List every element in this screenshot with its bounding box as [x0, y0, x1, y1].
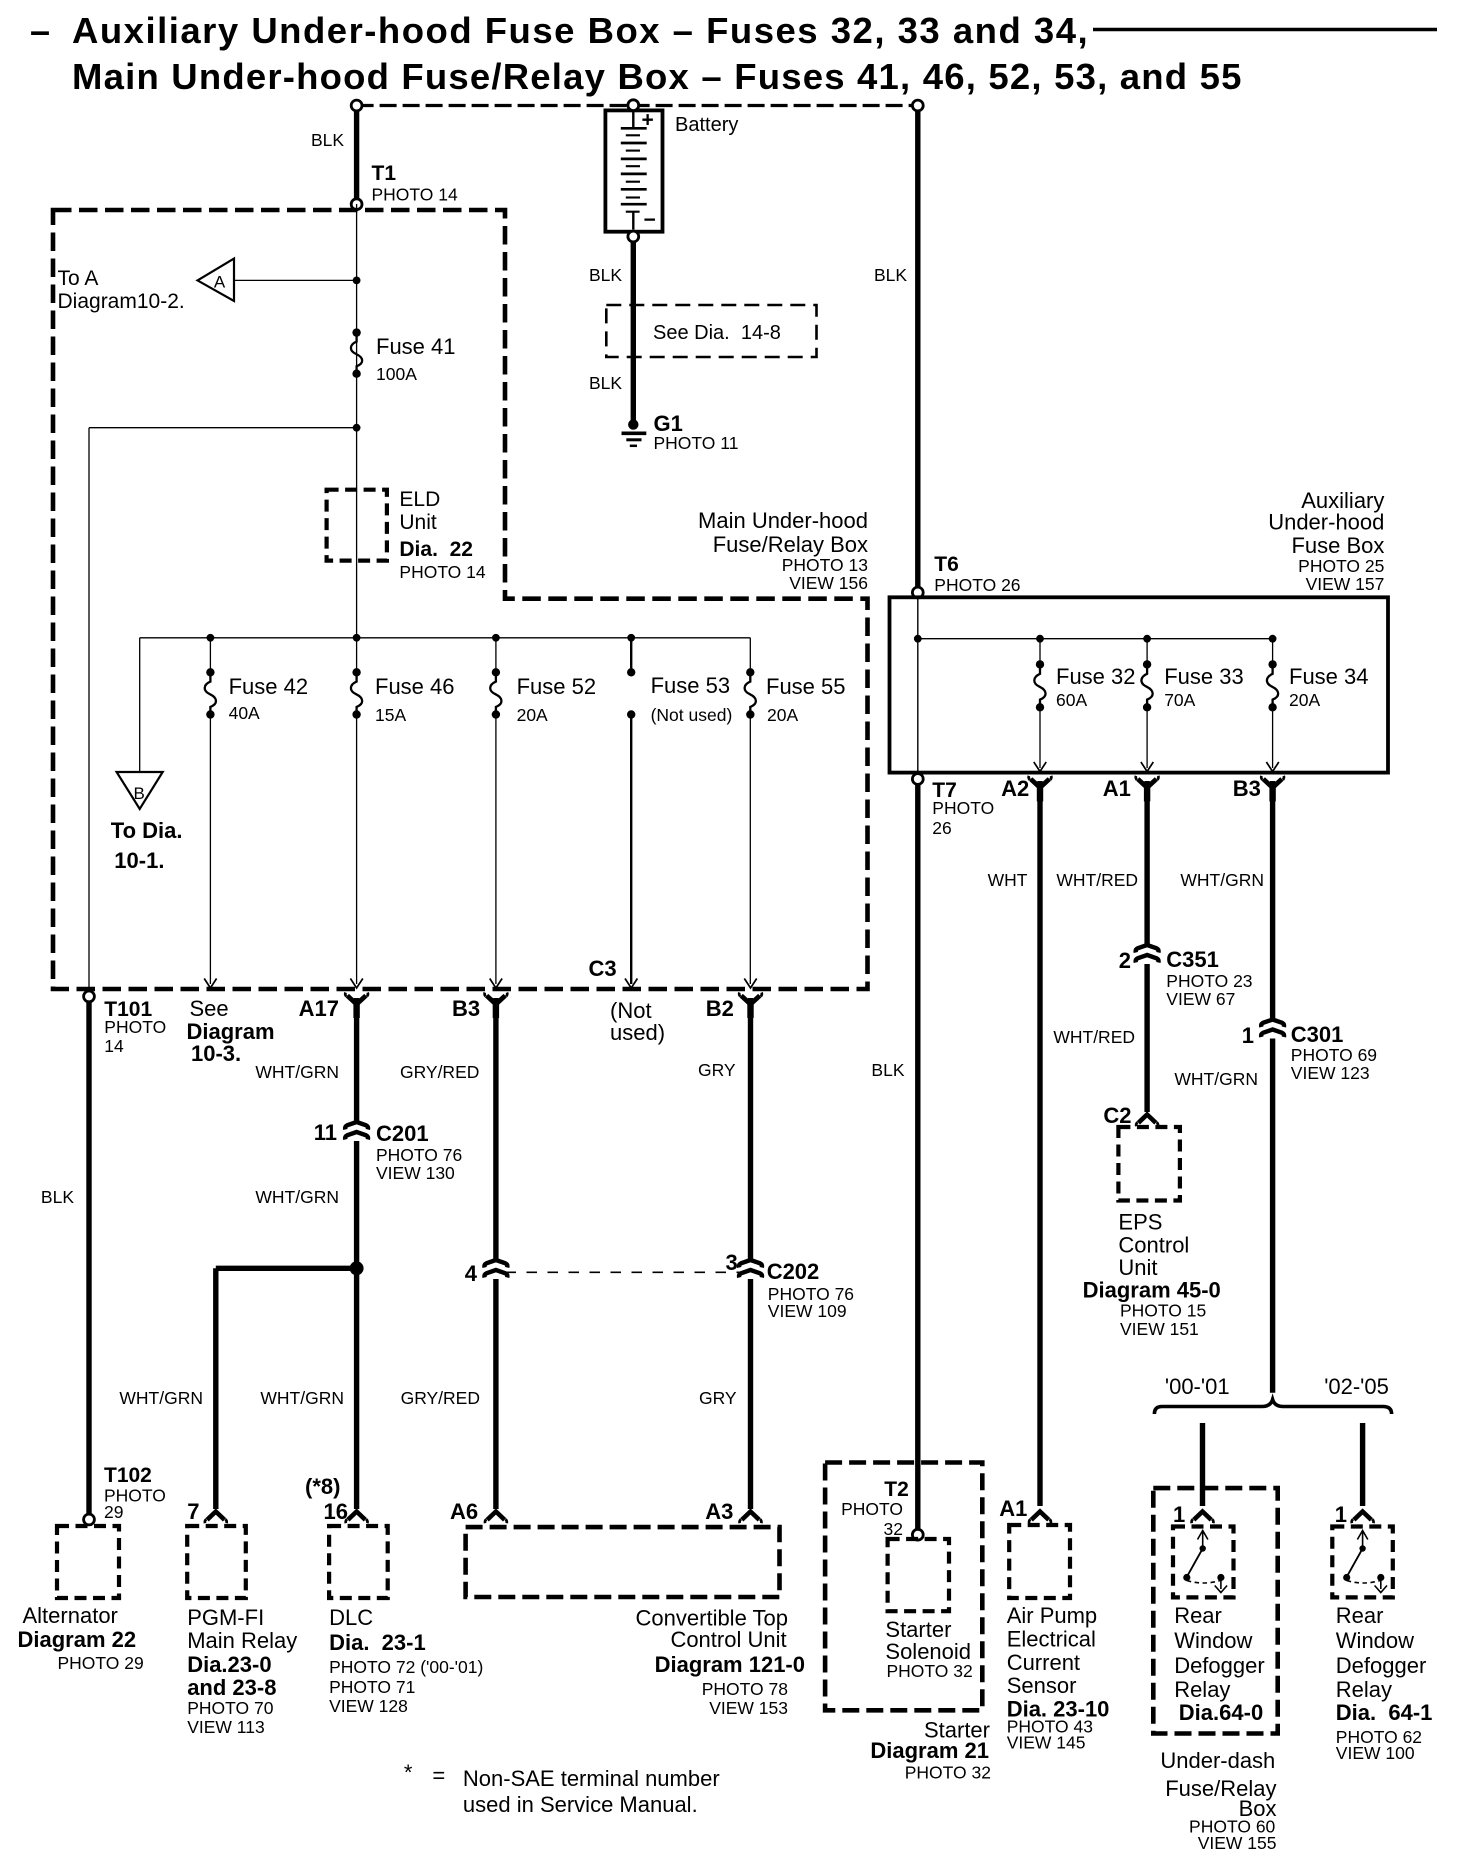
svg-text:32: 32	[884, 1519, 903, 1539]
node feed top	[912, 100, 923, 111]
fuse F52 20A	[490, 668, 501, 719]
connector B3 aux terminal	[1261, 776, 1284, 802]
svg-text:PHOTO 13: PHOTO 13	[782, 555, 868, 575]
svg-text:VIEW 155: VIEW 155	[1198, 1833, 1277, 1853]
arrow B3 exit	[490, 979, 502, 989]
svg-text:VIEW 156: VIEW 156	[789, 573, 868, 593]
svg-text:Unit: Unit	[399, 511, 437, 534]
svg-text:T102: T102	[104, 1464, 152, 1487]
svg-text:PHOTO: PHOTO	[841, 1499, 903, 1519]
connector air pump A1	[1029, 1512, 1051, 1524]
svg-text:C3: C3	[589, 956, 617, 981]
svg-text:See Dia. 14-8: See Dia. 14-8	[653, 322, 781, 344]
svg-text:PHOTO 76: PHOTO 76	[376, 1145, 462, 1165]
fuse F34 20A	[1267, 660, 1278, 711]
svg-text:Main Under-hood: Main Under-hood	[698, 508, 868, 533]
svg-text:–: –	[30, 10, 50, 51]
svg-text:Relay: Relay	[1174, 1677, 1230, 1702]
svg-text:1: 1	[1335, 1502, 1347, 1527]
svg-text:Diagram 121-0: Diagram 121-0	[655, 1652, 805, 1677]
defogger relay left internals	[1183, 1531, 1227, 1593]
svg-text:PHOTO 11: PHOTO 11	[654, 433, 739, 453]
svg-text:+: +	[642, 109, 654, 132]
svg-text:15A: 15A	[375, 705, 406, 725]
fuse F46 15A	[351, 668, 362, 719]
svg-text:WHT/GRN: WHT/GRN	[1180, 870, 1264, 890]
svg-text:Rear: Rear	[1336, 1603, 1384, 1628]
svg-text:2: 2	[1119, 948, 1131, 973]
svg-text:Fuse 32: Fuse 32	[1056, 664, 1136, 689]
svg-text:Relay: Relay	[1336, 1677, 1392, 1702]
svg-text:PHOTO 14: PHOTO 14	[372, 185, 459, 205]
svg-text:VIEW 151: VIEW 151	[1120, 1319, 1199, 1339]
arrow B2 exit	[744, 979, 756, 989]
svg-text:T2: T2	[884, 1478, 909, 1501]
wire fuse53 column not used	[630, 638, 632, 669]
svg-text:14: 14	[104, 1036, 124, 1056]
svg-text:11: 11	[314, 1120, 337, 1145]
starter solenoid inner box	[888, 1539, 949, 1611]
svg-text:Current: Current	[1007, 1650, 1080, 1675]
svg-text:Sensor: Sensor	[1007, 1673, 1077, 1698]
svg-text:GRY: GRY	[699, 1388, 737, 1408]
svg-text:PHOTO 72 ('00-'01): PHOTO 72 ('00-'01)	[329, 1657, 483, 1677]
svg-text:A: A	[214, 273, 226, 292]
svg-text:PHOTO 70: PHOTO 70	[187, 1698, 274, 1718]
wire battery feed to T6 BLK	[915, 106, 920, 593]
svg-text:Fuse 34: Fuse 34	[1289, 664, 1369, 689]
wire A2 WHT down	[1037, 781, 1042, 1506]
svg-text:used): used)	[610, 1020, 665, 1045]
wire B2 below pin3	[748, 1279, 753, 1509]
node battery negative terminal	[628, 231, 639, 242]
svg-text:See: See	[190, 996, 229, 1021]
arrow A to Diagram 10-2	[198, 259, 235, 301]
battery	[605, 109, 662, 232]
svg-text:=: =	[432, 1763, 445, 1788]
svg-text:WHT/GRN: WHT/GRN	[255, 1187, 339, 1207]
svg-text:PHOTO 23: PHOTO 23	[1166, 971, 1252, 991]
svg-text:40A: 40A	[229, 703, 260, 723]
svg-text:Defogger: Defogger	[1174, 1653, 1265, 1678]
svg-text:'02-'05: '02-'05	[1324, 1374, 1389, 1399]
svg-text:A1: A1	[1103, 776, 1131, 801]
svg-text:DLC: DLC	[329, 1605, 373, 1630]
svg-text:VIEW 67: VIEW 67	[1166, 989, 1235, 1009]
connector C2 EPS	[1136, 1115, 1158, 1127]
arrow C3 exit not used	[625, 979, 637, 989]
svg-text:BLK: BLK	[311, 130, 344, 150]
wire C202 dashed link	[506, 1271, 742, 1273]
svg-text:Auxiliary Under-hood Fuse Box: Auxiliary Under-hood Fuse Box – Fuses 32…	[72, 10, 1089, 51]
svg-text:VIEW 157: VIEW 157	[1306, 574, 1385, 594]
node T7	[915, 779, 920, 1535]
svg-text:VIEW 153: VIEW 153	[709, 1698, 788, 1718]
svg-text:WHT/GRN: WHT/GRN	[119, 1388, 203, 1408]
arrow A1 exit	[1141, 762, 1153, 772]
svg-text:PHOTO 78: PHOTO 78	[702, 1679, 788, 1699]
node T6	[912, 587, 923, 598]
wire B2 GRY down	[748, 998, 753, 1260]
node T2	[912, 1529, 923, 1540]
wire defogger left branch	[1200, 1423, 1205, 1506]
wire A17 WHT/GRN down	[354, 998, 359, 1122]
svg-text:1: 1	[1173, 1502, 1185, 1527]
svg-text:VIEW 130: VIEW 130	[376, 1163, 455, 1183]
wire aux bus	[918, 638, 1273, 640]
svg-text:*: *	[404, 1760, 413, 1785]
air pump sensor box	[1009, 1525, 1070, 1598]
svg-text:20A: 20A	[767, 705, 798, 725]
defogger relay right internals	[1343, 1531, 1387, 1593]
svg-text:BLK: BLK	[589, 373, 622, 393]
svg-text:Window: Window	[1174, 1628, 1252, 1653]
connector C201 pin 11	[345, 1122, 368, 1130]
wire T1 to bus	[356, 204, 358, 638]
junction node A17/PGM-FI	[216, 1266, 357, 1271]
connector C351 pin 2	[1136, 945, 1159, 953]
svg-text:Window: Window	[1336, 1628, 1414, 1653]
connector A17 terminal	[345, 993, 368, 1019]
svg-text:70A: 70A	[1164, 690, 1195, 710]
svg-text:C301: C301	[1291, 1022, 1344, 1047]
arrow fuse42 exit	[204, 979, 216, 989]
See Dia. 14-8 box	[606, 305, 816, 357]
svg-text:20A: 20A	[517, 705, 548, 725]
svg-text:PHOTO 71: PHOTO 71	[329, 1677, 415, 1697]
svg-text:Under-hood: Under-hood	[1268, 510, 1384, 535]
node battery positive terminal	[628, 100, 639, 111]
wire A1 below C351	[1144, 964, 1149, 1112]
connector defogger relay left pin 1	[1192, 1512, 1214, 1524]
wire dashed top feed T1 to battery to T6	[357, 104, 918, 107]
defogger relay left box	[1173, 1527, 1234, 1598]
svg-text:B3: B3	[452, 996, 480, 1021]
wire B3 GRY/RED down	[493, 998, 498, 1260]
svg-text:Electrical: Electrical	[1007, 1627, 1096, 1652]
node T102	[84, 1514, 95, 1525]
connector C202 pin 3	[739, 1260, 762, 1268]
svg-text:used in Service Manual.: used in Service Manual.	[463, 1792, 698, 1817]
svg-text:A6: A6	[450, 1499, 478, 1524]
connector C301 pin 1	[1261, 1020, 1284, 1028]
connector PGM-FI pin 7	[205, 1512, 227, 1524]
arrow A17 exit	[350, 979, 362, 989]
svg-text:A2: A2	[1001, 776, 1029, 801]
svg-text:Diagram 45-0: Diagram 45-0	[1083, 1278, 1221, 1303]
svg-text:Fuse Box: Fuse Box	[1291, 533, 1384, 558]
svg-text:PHOTO 14: PHOTO 14	[399, 562, 486, 582]
svg-text:Unit: Unit	[1118, 1255, 1157, 1280]
svg-text:Fuse 33: Fuse 33	[1164, 664, 1244, 689]
svg-text:1: 1	[1242, 1023, 1254, 1048]
svg-text:Fuse 42: Fuse 42	[229, 674, 309, 699]
svg-text:B: B	[134, 784, 145, 803]
svg-text:60A: 60A	[1056, 690, 1087, 710]
svg-text:To Dia.: To Dia.	[111, 818, 183, 843]
svg-text:3: 3	[726, 1250, 738, 1275]
wire fuse46 column	[356, 638, 358, 673]
svg-text:Fuse 55: Fuse 55	[766, 674, 846, 699]
svg-text:C201: C201	[376, 1121, 429, 1146]
ELD unit box	[327, 490, 387, 561]
connector A6 terminal	[485, 1512, 507, 1524]
svg-text:16: 16	[324, 1499, 348, 1524]
svg-text:29: 29	[104, 1502, 123, 1522]
svg-text:−: −	[644, 209, 656, 232]
svg-text:PHOTO 29: PHOTO 29	[58, 1653, 144, 1673]
ground G1	[622, 419, 647, 445]
svg-text:PHOTO 32: PHOTO 32	[905, 1763, 991, 1783]
wire fuse42 column	[209, 638, 211, 673]
svg-text:10-3.: 10-3.	[191, 1041, 241, 1066]
fuse F33 70A	[1141, 660, 1152, 711]
svg-text:Dia. 64-1: Dia. 64-1	[1336, 1700, 1433, 1725]
svg-text:EPS: EPS	[1118, 1210, 1162, 1235]
svg-text:Fuse 52: Fuse 52	[517, 674, 597, 699]
wire T1 drop BLK	[354, 106, 359, 205]
svg-text:PGM-FI: PGM-FI	[187, 1605, 264, 1630]
svg-text:VIEW 113: VIEW 113	[187, 1717, 265, 1737]
fuse F42 40A	[205, 668, 216, 719]
wire fuse34 column	[1272, 639, 1274, 665]
brace year split	[1154, 1400, 1391, 1415]
wire defogger right branch	[1360, 1423, 1365, 1506]
svg-text:A1: A1	[999, 1496, 1027, 1521]
node T1	[351, 199, 362, 210]
svg-text:10-1.: 10-1.	[114, 848, 164, 873]
svg-text:PHOTO 32: PHOTO 32	[887, 1661, 973, 1681]
svg-text:T1: T1	[372, 162, 397, 185]
svg-text:'00-'01: '00-'01	[1165, 1374, 1230, 1399]
fuse F55 20A	[745, 668, 756, 719]
wire to B arrow	[139, 638, 141, 772]
wire A17 below C201	[354, 1141, 359, 1268]
svg-text:Fuse 41: Fuse 41	[376, 334, 456, 359]
wire bus in main box	[140, 637, 751, 639]
svg-text:20A: 20A	[1289, 690, 1320, 710]
svg-text:BLK: BLK	[41, 1187, 74, 1207]
svg-text:VIEW 128: VIEW 128	[329, 1696, 408, 1716]
wire PGM-FI branch down	[213, 1268, 218, 1509]
connector B2 terminal	[739, 993, 762, 1019]
svg-text:Main Relay: Main Relay	[187, 1628, 297, 1653]
wire battery to G1 ground BLK	[631, 242, 636, 425]
node T1 top	[351, 100, 362, 111]
wire fuse52 column	[495, 638, 497, 673]
svg-text:Dia. 22: Dia. 22	[399, 538, 473, 561]
svg-text:WHT: WHT	[988, 870, 1028, 890]
svg-text:WHT/RED: WHT/RED	[1056, 870, 1138, 890]
wire B3 below pin4	[493, 1279, 498, 1509]
svg-text:WHT/GRN: WHT/GRN	[1174, 1069, 1258, 1089]
svg-text:Diagram10-2.: Diagram10-2.	[58, 290, 185, 313]
svg-text:PHOTO: PHOTO	[932, 798, 994, 818]
Main Under-hood Fuse/Relay Box dashed outline	[53, 210, 868, 989]
svg-text:PHOTO 26: PHOTO 26	[934, 575, 1020, 595]
arrow A2 exit	[1034, 762, 1046, 772]
svg-text:Dia.23-0: Dia.23-0	[187, 1652, 271, 1677]
svg-text:A17: A17	[299, 996, 339, 1021]
svg-text:VIEW 100: VIEW 100	[1336, 1743, 1415, 1763]
svg-text:A3: A3	[705, 1499, 733, 1524]
fuse F41 100A	[351, 328, 362, 378]
svg-text:Fuse 53: Fuse 53	[651, 673, 731, 698]
connector A2 terminal	[1029, 776, 1052, 802]
svg-text:BLK: BLK	[874, 265, 907, 285]
wire to A arrow	[234, 279, 357, 281]
svg-text:Battery: Battery	[675, 114, 738, 136]
svg-text:Air Pump: Air Pump	[1007, 1603, 1097, 1628]
svg-text:PHOTO: PHOTO	[104, 1017, 166, 1037]
wire fuse32 column	[1039, 639, 1041, 665]
svg-text:(*8): (*8)	[305, 1474, 340, 1499]
node T101	[86, 996, 91, 1520]
svg-text:VIEW 123: VIEW 123	[1291, 1063, 1370, 1083]
under-dash fuse/relay box	[1153, 1488, 1277, 1733]
wire fuse33 column	[1146, 639, 1148, 665]
fuse F32 60A	[1034, 660, 1045, 711]
EPS control unit box	[1118, 1127, 1180, 1201]
PGM-FI main relay box	[187, 1526, 246, 1598]
svg-text:VIEW 109: VIEW 109	[768, 1301, 847, 1321]
wire branch to T101 column	[89, 427, 357, 429]
connector DLC pin 16	[346, 1512, 368, 1524]
svg-text:100A: 100A	[376, 364, 417, 384]
wire B3 below C301	[1270, 1039, 1275, 1393]
svg-text:Under-dash: Under-dash	[1160, 1748, 1275, 1773]
svg-text:Dia. 23-1: Dia. 23-1	[329, 1630, 426, 1655]
svg-text:PHOTO 69: PHOTO 69	[1291, 1045, 1377, 1065]
svg-text:VIEW 145: VIEW 145	[1007, 1733, 1086, 1753]
svg-text:Alternator: Alternator	[23, 1603, 118, 1628]
arrow B to Dia 10-1	[117, 772, 163, 809]
svg-text:Main Under-hood Fuse/Relay Box: Main Under-hood Fuse/Relay Box – Fuses 4…	[72, 56, 1243, 97]
svg-text:C2: C2	[1103, 1103, 1131, 1128]
defogger relay right box	[1332, 1527, 1393, 1598]
alternator box	[86, 1525, 91, 1527]
svg-text:26: 26	[932, 818, 951, 838]
wire A1 WHT/RED down	[1144, 781, 1149, 946]
svg-text:C351: C351	[1166, 947, 1219, 972]
connector defogger relay right pin 1	[1352, 1512, 1374, 1524]
wire T6 to T7 inside aux box	[917, 597, 919, 772]
title rule line	[1093, 28, 1437, 31]
svg-text:BLK: BLK	[871, 1060, 904, 1080]
wire DLC column down	[354, 1268, 359, 1509]
svg-text:7: 7	[187, 1499, 199, 1524]
svg-text:Rear: Rear	[1174, 1603, 1222, 1628]
svg-text:WHT/GRN: WHT/GRN	[260, 1388, 344, 1408]
svg-text:Dia.64-0: Dia.64-0	[1179, 1700, 1263, 1725]
convertible top control unit box	[466, 1527, 780, 1597]
svg-text:Control Unit: Control Unit	[670, 1627, 786, 1652]
svg-text:B3: B3	[1233, 776, 1261, 801]
svg-text:ELD: ELD	[399, 488, 440, 511]
svg-text:C202: C202	[767, 1259, 820, 1284]
svg-text:Defogger: Defogger	[1336, 1653, 1427, 1678]
svg-text:and 23-8: and 23-8	[187, 1675, 276, 1700]
wire B3 WHT/GRN down	[1270, 781, 1275, 1020]
svg-text:GRY/RED: GRY/RED	[401, 1388, 480, 1408]
svg-text:PHOTO 25: PHOTO 25	[1298, 556, 1384, 576]
connector A3 terminal	[740, 1512, 762, 1524]
DLC box	[329, 1526, 388, 1598]
svg-text:GRY: GRY	[698, 1060, 736, 1080]
svg-text:4: 4	[465, 1261, 478, 1286]
wire fuse55 column	[749, 638, 751, 673]
svg-text:Fuse/Relay Box: Fuse/Relay Box	[713, 532, 868, 557]
svg-text:WHT/GRN: WHT/GRN	[255, 1062, 339, 1082]
svg-text:Non-SAE terminal number: Non-SAE terminal number	[463, 1766, 720, 1791]
svg-text:T6: T6	[934, 553, 959, 576]
svg-text:Diagram 22: Diagram 22	[18, 1627, 137, 1652]
svg-text:B2: B2	[706, 996, 734, 1021]
connector C202 pin 4	[484, 1260, 507, 1268]
connector B3 terminal	[485, 993, 508, 1019]
arrow B3 aux exit	[1266, 762, 1278, 772]
starter outer box	[825, 1463, 982, 1711]
wire T101 column down	[88, 428, 90, 991]
svg-text:WHT/RED: WHT/RED	[1053, 1027, 1135, 1047]
svg-text:To A: To A	[58, 267, 99, 290]
svg-text:PHOTO 15: PHOTO 15	[1120, 1301, 1206, 1321]
svg-text:Fuse 46: Fuse 46	[375, 674, 455, 699]
svg-text:(Not used): (Not used)	[651, 705, 733, 725]
Auxiliary Under-hood Fuse Box outline	[890, 597, 1389, 772]
svg-text:Diagram 21: Diagram 21	[870, 1738, 989, 1763]
connector A1 terminal	[1136, 776, 1159, 802]
svg-text:BLK: BLK	[589, 265, 622, 285]
svg-text:GRY/RED: GRY/RED	[400, 1062, 479, 1082]
svg-text:Control: Control	[1118, 1233, 1189, 1258]
